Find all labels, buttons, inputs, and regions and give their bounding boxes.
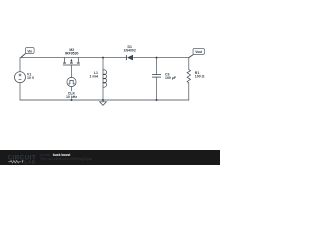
- wire capacitor top lead: [156, 58, 158, 75]
- svg-text:10 kHz: 10 kHz: [66, 95, 77, 99]
- node flag Vout: [189, 49, 205, 58]
- wire diode to vout corner: [133, 57, 188, 59]
- junction node at capacitor bottom: [156, 99, 158, 101]
- junction node at clk bottom: [71, 99, 73, 101]
- voltage source V1: [15, 72, 26, 83]
- wire inductor bottom lead: [102, 87, 104, 100]
- ground: [100, 100, 107, 105]
- wire inductor top lead: [102, 58, 104, 70]
- wire clk gate lead: [71, 65, 73, 77]
- junction node at ground: [102, 99, 104, 101]
- resistor R1: [187, 70, 190, 83]
- wire top rail across mosfet: [65, 57, 79, 59]
- svg-text:Vin: Vin: [27, 49, 32, 53]
- wire capacitor bottom lead: [156, 77, 158, 100]
- transistor M2 (PMOS): [63, 58, 80, 65]
- diode D1: [126, 55, 133, 61]
- svg-text:1N4002: 1N4002: [124, 49, 136, 53]
- clock source CLK: [67, 77, 76, 86]
- svg-text:LAB: LAB: [24, 160, 35, 165]
- footer watermark bar: [0, 150, 220, 165]
- footer logo resistor zigzag: [8, 161, 21, 163]
- junction node at inductor top: [102, 57, 104, 59]
- capacitor C3: [152, 75, 161, 78]
- wire bottom rail: [20, 99, 189, 101]
- junction node at capacitor top: [156, 57, 158, 59]
- svg-text:10 V: 10 V: [27, 76, 35, 80]
- svg-text:1 mH: 1 mH: [89, 75, 98, 79]
- svg-text:http://circuitlab.com/c5f50bsg: http://circuitlab.com/c5f50bsg35pqk: [41, 157, 93, 161]
- wire right vertical bottom: [188, 83, 190, 100]
- wire top rail left segment: [20, 57, 65, 59]
- CLK label: [67, 91, 77, 95]
- inductor L1: [103, 70, 107, 87]
- wire clk bottom lead: [71, 87, 73, 100]
- wire right vertical top: [188, 58, 190, 70]
- CLK value 10 kHz: [65, 95, 79, 99]
- svg-text:Vout: Vout: [195, 50, 203, 54]
- svg-text:100 µF: 100 µF: [165, 76, 177, 80]
- svg-text:100 Ω: 100 Ω: [195, 75, 205, 79]
- wire left vertical top: [19, 58, 21, 72]
- svg-text:IRF9530: IRF9530: [65, 52, 78, 56]
- footer logo bolt: [22, 160, 24, 163]
- wire left vertical bottom: [19, 83, 21, 100]
- node flag Vin: [21, 48, 34, 58]
- wire top rail mosfet to diode: [78, 57, 126, 59]
